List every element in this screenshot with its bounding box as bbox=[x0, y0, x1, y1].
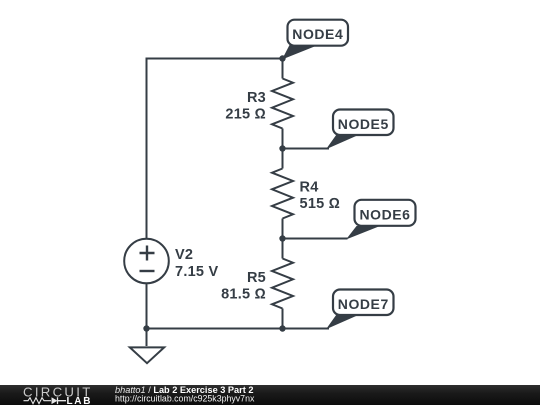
svg-text:515 Ω: 515 Ω bbox=[300, 196, 341, 212]
svg-text:R4: R4 bbox=[300, 180, 319, 196]
svg-text:NODE4: NODE4 bbox=[292, 26, 343, 42]
node D junction dot (NODE7) bbox=[279, 325, 285, 331]
svg-text:NODE6: NODE6 bbox=[360, 206, 411, 222]
voltage source V2 circle bbox=[124, 239, 169, 284]
NODE7 callout tail bbox=[326, 315, 360, 330]
CircuitLab logo resistor zigzag bbox=[24, 398, 52, 404]
wire R4 to R5 bbox=[282, 219, 284, 259]
wire bottom horizontal from V2 to NODE7 stub bbox=[147, 328, 330, 330]
svg-text:LAB: LAB bbox=[67, 396, 93, 405]
svg-text:R3: R3 bbox=[247, 90, 266, 106]
node A junction dot top (NODE4) bbox=[279, 55, 285, 61]
svg-text:7.15 V: 7.15 V bbox=[175, 264, 218, 280]
wire R3 top lead bbox=[282, 59, 284, 79]
wire ground stem bbox=[146, 329, 148, 347]
svg-text:NODE5: NODE5 bbox=[338, 116, 389, 132]
resistor R5 bbox=[272, 259, 293, 309]
NODE6 callout tail bbox=[346, 226, 380, 240]
resistor R4 bbox=[272, 169, 293, 219]
resistor R3 bbox=[272, 79, 293, 129]
V2 minus sign bbox=[140, 270, 155, 272]
ground symbol bbox=[130, 347, 164, 363]
NODE4 callout box bbox=[288, 20, 349, 46]
NODE7 callout box bbox=[333, 290, 394, 316]
node E junction dot (ground) bbox=[143, 325, 149, 331]
svg-text:81.5 Ω: 81.5 Ω bbox=[221, 287, 266, 303]
wire NODE6 stub bbox=[283, 238, 348, 240]
svg-text:NODE7: NODE7 bbox=[338, 296, 389, 312]
NODE5 callout tail bbox=[326, 135, 360, 150]
NODE4 callout tail bbox=[282, 45, 317, 60]
svg-text:215 Ω: 215 Ω bbox=[225, 107, 266, 123]
V2 plus sign bbox=[140, 246, 155, 261]
wire left rail lower (V2 minus terminal to bottom wire) bbox=[146, 283, 148, 328]
node C junction dot (NODE6) bbox=[279, 235, 285, 241]
NODE5 callout box bbox=[333, 110, 394, 136]
NODE6 callout box bbox=[355, 200, 416, 226]
svg-text:V2: V2 bbox=[175, 247, 193, 263]
wire NODE5 stub bbox=[283, 148, 330, 150]
node B junction dot (NODE5) bbox=[279, 145, 285, 151]
svg-text:http://circuitlab.com/c925k3ph: http://circuitlab.com/c925k3phyv7nx bbox=[115, 393, 255, 403]
CircuitLab logo diode bbox=[52, 397, 58, 404]
wire R5 bottom lead bbox=[282, 309, 284, 329]
svg-text:R5: R5 bbox=[247, 270, 266, 286]
wire R3 to R4 bbox=[282, 129, 284, 169]
wire top horizontal from V2 to R3 top and left rail upper bbox=[147, 59, 283, 240]
